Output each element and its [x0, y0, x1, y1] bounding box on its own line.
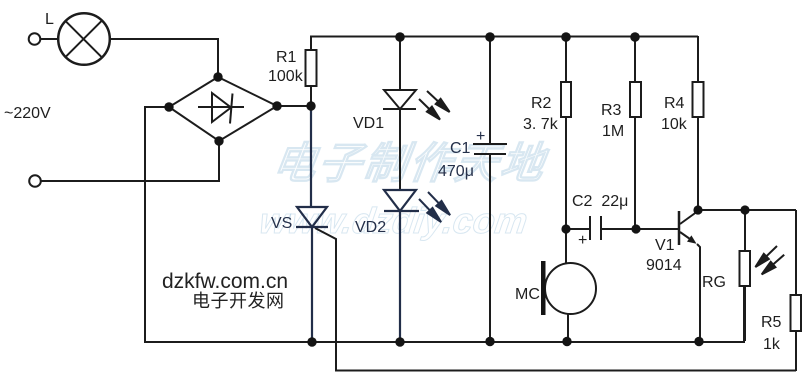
svg-text:+: + — [578, 232, 587, 249]
svg-text:R5: R5 — [761, 314, 782, 331]
svg-text:VD2: VD2 — [355, 219, 386, 236]
svg-text:电子开发网: 电子开发网 — [192, 291, 285, 311]
svg-text:100k: 100k — [268, 68, 304, 85]
svg-text:1M: 1M — [602, 123, 624, 140]
svg-text:V1: V1 — [655, 237, 675, 254]
svg-text:C2 22μ: C2 22μ — [572, 193, 628, 210]
svg-text:R2: R2 — [531, 95, 552, 112]
svg-text:9014: 9014 — [646, 257, 682, 274]
svg-text:+: + — [476, 128, 485, 145]
svg-text:C1: C1 — [450, 140, 471, 157]
svg-text:~220V: ~220V — [4, 105, 51, 122]
svg-text:R1: R1 — [276, 49, 297, 66]
svg-text:470μ: 470μ — [438, 163, 474, 180]
svg-text:R3: R3 — [601, 102, 622, 119]
svg-text:3. 7k: 3. 7k — [523, 116, 559, 133]
svg-text:L: L — [45, 11, 54, 28]
svg-text:RG: RG — [702, 274, 726, 291]
svg-text:R4: R4 — [664, 95, 685, 112]
svg-text:MC: MC — [515, 286, 540, 303]
svg-text:VS: VS — [271, 215, 292, 232]
svg-text:10k: 10k — [661, 116, 688, 133]
svg-text:1k: 1k — [763, 336, 781, 353]
svg-text:VD1: VD1 — [353, 115, 384, 132]
svg-text:dzkfw.com.cn: dzkfw.com.cn — [162, 270, 288, 293]
